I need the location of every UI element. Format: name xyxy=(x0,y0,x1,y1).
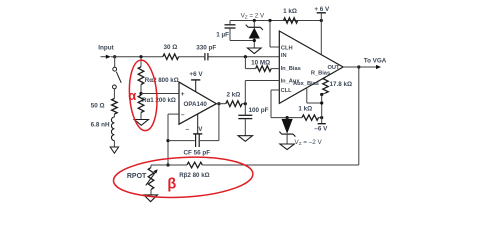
wire CF to out xyxy=(218,104,220,141)
node CF left xyxy=(166,139,169,142)
wire RPOT to ground xyxy=(150,190,152,195)
svg-text:1 µF: 1 µF xyxy=(216,31,229,38)
ground alpha branch xyxy=(134,120,148,126)
red ellipse beta xyxy=(112,154,253,201)
node zener anode xyxy=(253,39,256,42)
svg-text:α: α xyxy=(128,88,136,103)
wire RBias to -6V xyxy=(321,95,323,118)
svg-text:1 kΩ: 1 kΩ xyxy=(298,105,312,112)
node main IN xyxy=(244,55,247,58)
svg-text:OPA140: OPA140 xyxy=(184,101,208,108)
svg-text:100 pF: 100 pF xyxy=(249,107,269,114)
wire In_Aux xyxy=(244,81,246,104)
wire CLL xyxy=(271,89,279,91)
wire Vz bottom xyxy=(230,40,254,42)
wire input to switch xyxy=(114,57,116,68)
wire R50 to L xyxy=(113,114,115,117)
ground Vz branch xyxy=(248,48,262,54)
svg-text:–: – xyxy=(185,126,189,133)
wire CLH xyxy=(269,21,271,48)
wire alpha node to opamp plus xyxy=(141,93,179,95)
wire beta row right xyxy=(202,164,358,166)
svg-text:RPOT: RPOT xyxy=(127,173,147,180)
node out xyxy=(357,65,360,68)
input arrow xyxy=(101,56,107,58)
ground input branch xyxy=(110,147,118,153)
svg-text:Aux_Bias: Aux_Bias xyxy=(293,81,319,87)
svg-text:+ 6 V: + 6 V xyxy=(314,6,330,13)
node A alpha top xyxy=(139,55,142,58)
node alpha mid xyxy=(139,92,142,95)
svg-text:330 pF: 330 pF xyxy=(196,44,216,51)
node RBias bottom xyxy=(320,93,323,96)
wire out to VGA xyxy=(343,66,376,68)
svg-text:VZ = –2 V: VZ = –2 V xyxy=(295,139,323,146)
svg-text:2 kΩ: 2 kΩ xyxy=(226,91,240,98)
svg-text:Rα1 200 kΩ: Rα1 200 kΩ xyxy=(142,97,176,104)
svg-text:30 Ω: 30 Ω xyxy=(163,44,177,51)
svg-text:–: – xyxy=(181,111,185,118)
svg-text:IN: IN xyxy=(281,53,287,59)
svg-text:17.8 kΩ: 17.8 kΩ xyxy=(330,81,353,88)
wire Ra2 to node xyxy=(140,85,142,96)
svg-text:CLH: CLH xyxy=(281,46,293,52)
node CLH drop xyxy=(268,19,271,22)
node beta xyxy=(166,163,169,166)
wire L to ground xyxy=(113,141,115,147)
svg-text:R_Bias: R_Bias xyxy=(311,71,330,77)
svg-text:+6 V: +6 V xyxy=(189,71,203,78)
wire CLL row xyxy=(271,117,302,119)
wire Aux_Bias pin xyxy=(306,88,308,103)
switch S1 xyxy=(113,67,117,71)
svg-text:CLL: CLL xyxy=(281,88,293,94)
-6V supply xyxy=(321,118,323,124)
svg-text:To VGA: To VGA xyxy=(364,57,387,64)
opamp -V supply xyxy=(197,114,199,134)
wire Ra1 to ground xyxy=(140,113,142,120)
wire switch to R 50 xyxy=(113,89,115,99)
zener D2 Vz-2V xyxy=(286,118,288,120)
wire 30ohm to C330 xyxy=(179,56,205,58)
ground RPOT xyxy=(144,195,158,202)
svg-text:Input: Input xyxy=(98,45,114,52)
svg-text:50 Ω: 50 Ω xyxy=(91,102,105,109)
red ellipse alpha xyxy=(127,59,159,131)
node aux xyxy=(244,102,247,105)
zener D1 Vz2V xyxy=(253,19,256,22)
wire Vz top xyxy=(230,20,321,22)
wire 2k to aux node xyxy=(242,103,245,105)
ground zener neg xyxy=(280,144,294,150)
op-amp U1 OPA140 xyxy=(179,82,216,124)
wire feedback column xyxy=(167,114,169,165)
wire out feedback column xyxy=(358,67,360,165)
svg-text:1 kΩ: 1 kΩ xyxy=(283,8,297,15)
wire feedback minus xyxy=(168,113,179,115)
wire beta row left xyxy=(151,164,187,166)
svg-text:In_Bias: In_Bias xyxy=(281,66,301,72)
svg-text:VZ = 2 V: VZ = 2 V xyxy=(241,12,265,19)
wire main top xyxy=(111,56,163,58)
svg-text:Rβ2 80 kΩ: Rβ2 80 kΩ xyxy=(179,172,209,179)
svg-text:–6 V: –6 V xyxy=(314,125,328,132)
node zener neg xyxy=(286,116,289,119)
node 1k plus6 xyxy=(320,19,323,22)
wire alpha column top xyxy=(140,57,142,67)
node opamp out xyxy=(217,102,220,105)
svg-text:CF 56 pF: CF 56 pF xyxy=(184,150,211,157)
svg-text:β: β xyxy=(167,177,176,193)
wire C330 to IN pin xyxy=(209,56,280,58)
node minus6 xyxy=(320,116,323,119)
amplifier U2 VGA driver xyxy=(279,31,343,103)
svg-text:Rα2 800 kΩ: Rα2 800 kΩ xyxy=(145,77,179,84)
svg-text:+: + xyxy=(181,91,185,98)
node aux bias join xyxy=(320,101,323,104)
svg-text:6.8 nH: 6.8 nH xyxy=(91,122,110,129)
ground 100pF xyxy=(238,136,252,142)
node input xyxy=(113,55,116,58)
wire opamp out xyxy=(216,103,225,105)
